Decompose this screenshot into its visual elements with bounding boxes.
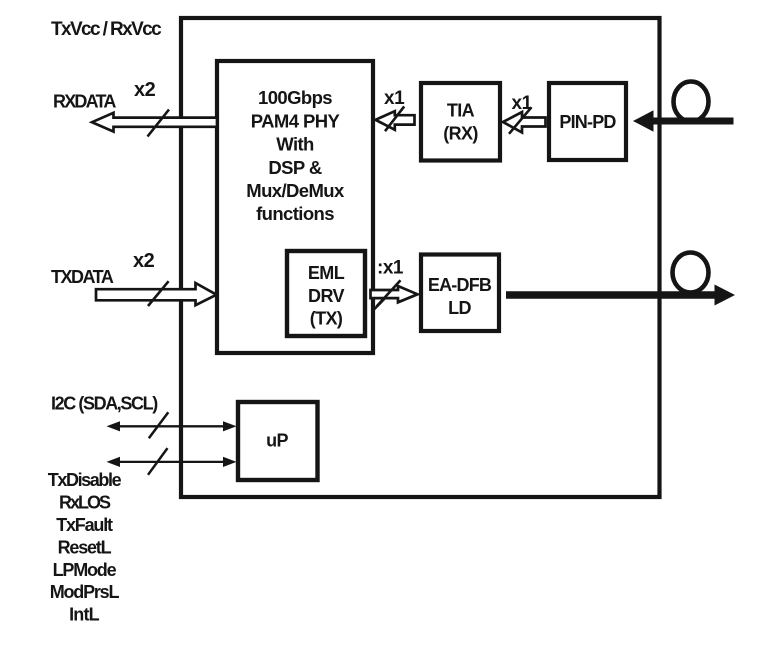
slash on TXDATA bus bbox=[148, 281, 169, 306]
second slash below EML-EA-DFB arrow bbox=[374, 297, 387, 310]
svg-text:TXDATA: TXDATA bbox=[51, 267, 114, 287]
svg-text::x1: :x1 bbox=[377, 258, 404, 279]
label x2 (TX) bbox=[133, 250, 155, 272]
label ModPrsL bbox=[50, 582, 120, 602]
slash on TIA-PHY arrow bbox=[385, 106, 404, 131]
bus arrow TXDATA in (open arrow right) bbox=[96, 283, 217, 305]
fiber pigtail loop TX bbox=[673, 253, 709, 293]
svg-text:Mux/DeMux: Mux/DeMux bbox=[246, 180, 345, 201]
label x1 (PIN-PD to TIA) bbox=[512, 93, 533, 114]
svg-text:uP: uP bbox=[266, 431, 288, 451]
label x1 (TIA to PHY) bbox=[384, 88, 405, 109]
svg-text:PIN-PD: PIN-PD bbox=[559, 112, 616, 132]
svg-text:ModPrsL: ModPrsL bbox=[50, 582, 120, 602]
slash on I2C arrow 1 bbox=[149, 412, 169, 438]
label TxDisable bbox=[48, 470, 122, 490]
block EML DRV (TX) bbox=[287, 251, 365, 336]
block TIA (RX) bbox=[421, 83, 500, 161]
svg-text:functions: functions bbox=[256, 203, 334, 224]
slash on PIN-PD-TIA arrow bbox=[509, 107, 532, 134]
svg-text:LPMode: LPMode bbox=[53, 560, 117, 580]
label x2 (RX) bbox=[134, 79, 156, 101]
svg-text:DRV: DRV bbox=[308, 286, 344, 306]
label ResetL bbox=[58, 537, 112, 557]
label :x1 (EML to EA-DFB) bbox=[377, 258, 404, 279]
label I2C (SDA,SCL) bbox=[51, 394, 158, 414]
svg-text:RxLOS: RxLOS bbox=[59, 493, 111, 513]
label TXDATA bbox=[51, 267, 114, 287]
control bus arrow 2 (double-headed) bbox=[107, 457, 237, 467]
signal arrow PIN-PD to TIA (open arrow left) bbox=[503, 112, 546, 133]
svg-text:RXDATA: RXDATA bbox=[53, 92, 116, 112]
signal arrow TIA to PHY (open arrow left) bbox=[376, 111, 415, 130]
svg-text:With: With bbox=[276, 134, 314, 155]
block PIN-PD bbox=[549, 83, 626, 160]
svg-text:x2: x2 bbox=[133, 250, 155, 272]
svg-text:x2: x2 bbox=[134, 79, 156, 101]
label RxLOS bbox=[59, 493, 111, 513]
svg-text:ResetL: ResetL bbox=[58, 537, 112, 557]
svg-text:x1: x1 bbox=[384, 88, 405, 109]
svg-text:DSP &: DSP & bbox=[268, 157, 321, 178]
svg-text:(TX): (TX) bbox=[310, 309, 343, 329]
label RXDATA bbox=[53, 92, 116, 112]
slash on RXDATA bus bbox=[148, 110, 170, 137]
fiber line RX input (thick, arrow into PIN-PD) bbox=[633, 110, 734, 131]
svg-text:LD: LD bbox=[448, 298, 471, 318]
svg-text:EA-DFB: EA-DFB bbox=[428, 275, 492, 295]
block EA-DFB LD bbox=[421, 255, 499, 332]
fiber line TX output (thick, arrow out right) bbox=[506, 285, 735, 306]
label LPMode bbox=[53, 560, 117, 580]
svg-text:I2C (SDA,SCL): I2C (SDA,SCL) bbox=[51, 394, 158, 414]
I2C bus arrow 1 (double-headed) bbox=[107, 421, 237, 431]
svg-text:TxDisable: TxDisable bbox=[48, 470, 122, 490]
label IntL bbox=[69, 605, 100, 625]
svg-text:EML: EML bbox=[308, 263, 345, 283]
svg-text:(RX): (RX) bbox=[443, 124, 478, 144]
svg-text:TIA: TIA bbox=[447, 101, 475, 121]
label TxFault bbox=[56, 515, 113, 535]
svg-text:TxFault: TxFault bbox=[56, 515, 113, 535]
block U1 100Gbps PAM4 PHY bbox=[217, 61, 373, 353]
svg-text:TxVcc / RxVcc: TxVcc / RxVcc bbox=[51, 19, 162, 40]
svg-text:PAM4 PHY: PAM4 PHY bbox=[251, 110, 341, 131]
bus arrow RXDATA out (open arrow left) bbox=[92, 113, 217, 132]
svg-text:100Gbps: 100Gbps bbox=[258, 87, 332, 108]
label TxVcc / RxVcc bbox=[51, 19, 162, 40]
fiber pigtail loop RX bbox=[674, 82, 709, 122]
slash on EML-EA-DFB arrow bbox=[377, 280, 401, 306]
module boundary box bbox=[181, 18, 660, 497]
signal arrow EML DRV to EA-DFB (open arrow right) bbox=[371, 286, 418, 302]
block uP microcontroller bbox=[238, 402, 318, 480]
svg-text:IntL: IntL bbox=[69, 605, 100, 625]
slash on control arrow 2 bbox=[148, 448, 168, 475]
